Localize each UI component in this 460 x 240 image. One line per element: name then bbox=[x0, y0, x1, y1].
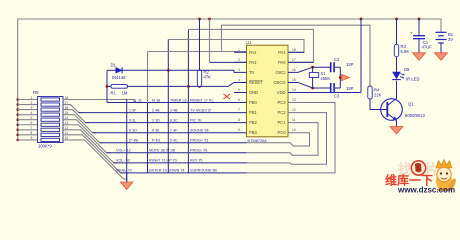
wire corridor col3 to pin18 PA1 bbox=[168, 40, 304, 53]
svg-text:8: 8 bbox=[238, 118, 240, 122]
svg-text:2: 2 bbox=[238, 58, 240, 62]
svg-text:5.6K: 5.6K bbox=[401, 49, 410, 54]
svg-text:PC3: PC3 bbox=[278, 100, 287, 105]
resistor R1 bbox=[107, 82, 247, 95]
svg-text:1M: 1M bbox=[122, 91, 128, 96]
wire pin3 T0 to D1 node bbox=[168, 69, 234, 71]
svg-text:6: 6 bbox=[31, 121, 33, 125]
svg-text:3: 3 bbox=[238, 68, 240, 72]
svg-text:2 4B: 2 4B bbox=[152, 108, 160, 112]
svg-text:C3: C3 bbox=[334, 94, 340, 99]
svg-text:18: 18 bbox=[292, 48, 296, 52]
svg-text:47UF: 47UF bbox=[422, 45, 433, 50]
ground under Q1 bbox=[390, 127, 403, 135]
capacitor C2 15P bbox=[331, 57, 354, 72]
svg-text:3 3D: 3 3D bbox=[152, 118, 160, 122]
capacitor C3 15P bbox=[331, 83, 354, 99]
resistor R4 22K bbox=[368, 86, 388, 110]
svg-text:VDD: VDD bbox=[277, 90, 286, 95]
resistor R2 47K bbox=[197, 19, 211, 86]
svg-text:+: + bbox=[410, 31, 413, 36]
svg-text:3V: 3V bbox=[448, 37, 453, 42]
svg-text:VOL- 53: VOL- 53 bbox=[116, 159, 130, 163]
svg-text:16: 16 bbox=[292, 68, 296, 72]
no-ERC red cross at pin5 bbox=[224, 94, 231, 99]
node junction dots on VDD rail bbox=[198, 18, 420, 21]
crystal X1 455K bbox=[309, 67, 330, 88]
svg-text:8050/9013: 8050/9013 bbox=[405, 113, 425, 118]
wire fan from resistor pack to key matrix rows bbox=[63, 100, 141, 180]
svg-text:TV-VIDEO 6*: TV-VIDEO 6* bbox=[190, 108, 212, 112]
svg-text:12: 12 bbox=[292, 108, 296, 112]
node A dot bbox=[311, 66, 314, 69]
svg-text:1: 1 bbox=[238, 48, 240, 52]
svg-text:PA2: PA2 bbox=[249, 50, 257, 55]
svg-text:U1: U1 bbox=[246, 40, 252, 45]
svg-text:PC1: PC1 bbox=[278, 120, 287, 125]
wire pin16 OSCI diagonal to node A bbox=[288, 67, 330, 72]
ground under table bbox=[120, 173, 133, 190]
svg-text:R1: R1 bbox=[111, 91, 117, 96]
node dot R1 left bbox=[106, 85, 109, 88]
svg-text:4: 4 bbox=[238, 78, 240, 82]
svg-text:GND: GND bbox=[249, 90, 258, 95]
watermark mascot bbox=[436, 160, 457, 192]
svg-text:8 3C: 8 3C bbox=[170, 118, 178, 122]
diode D1 IN4148 bbox=[107, 63, 168, 81]
wire VDD top rail bbox=[18, 19, 441, 140]
svg-text:8: 8 bbox=[31, 131, 33, 135]
LED D8 IR bbox=[392, 67, 419, 82]
svg-text:6: 6 bbox=[238, 98, 240, 102]
IC pin names bbox=[249, 50, 286, 135]
matrix column 2 bbox=[147, 52, 149, 104]
svg-text:PC2: PC2 bbox=[278, 110, 287, 115]
svg-text:SOUND SF: SOUND SF bbox=[190, 128, 210, 132]
op IC U1 NTM8720A bbox=[246, 40, 288, 143]
svg-text:www.dzsc.com: www.dzsc.com bbox=[397, 186, 455, 195]
svg-text:13: 13 bbox=[292, 98, 296, 102]
key matrix table grid lines bbox=[107, 102, 136, 104]
svg-text:PROG+ T3: PROG+ T3 bbox=[190, 139, 208, 143]
svg-text:PIC TE: PIC TE bbox=[190, 118, 202, 122]
svg-text:15P: 15P bbox=[346, 86, 354, 91]
svg-text:NTM8720A: NTM8720A bbox=[248, 139, 268, 143]
svg-text:14: 14 bbox=[292, 88, 296, 92]
matrix left bus bbox=[106, 70, 108, 102]
wire pin2 PA3 row bbox=[210, 61, 247, 63]
svg-text:9: 9 bbox=[31, 136, 33, 140]
battery B1 3V bbox=[435, 32, 454, 60]
wire caps common bbox=[339, 67, 341, 88]
svg-text:PA3: PA3 bbox=[249, 60, 257, 65]
svg-text:IR LED: IR LED bbox=[406, 77, 420, 82]
svg-text:IN4148: IN4148 bbox=[112, 75, 126, 80]
node dot R2 bottom bbox=[198, 85, 201, 88]
key matrix table text bbox=[116, 98, 217, 172]
svg-text:SURROUND 5B: SURROUND 5B bbox=[190, 169, 217, 173]
svg-text:7 4F: 7 4F bbox=[170, 128, 178, 132]
matrix column 1 bbox=[126, 99, 128, 182]
svg-text:PB1: PB1 bbox=[249, 110, 257, 115]
svg-text:7: 7 bbox=[238, 108, 240, 112]
svg-text:OSCO: OSCO bbox=[273, 80, 285, 85]
svg-text:9: 9 bbox=[238, 128, 240, 132]
svg-text:MUTE 3B 5* 3B: MUTE 3B 5* 3B bbox=[149, 149, 176, 153]
node dot caps common bbox=[339, 76, 342, 79]
svg-text:TIMER LE: TIMER LE bbox=[170, 98, 188, 102]
svg-text:Q1: Q1 bbox=[408, 102, 414, 107]
svg-text:PB3: PB3 bbox=[249, 130, 257, 135]
transistor Q1 8050/9013 bbox=[381, 99, 426, 121]
resistor R3 5.6K bbox=[394, 19, 409, 72]
svg-text:455K: 455K bbox=[320, 76, 330, 81]
svg-text:PA0: PA0 bbox=[278, 60, 286, 65]
svg-text:10: 10 bbox=[292, 128, 296, 132]
svg-text:4 3K: 4 3K bbox=[152, 128, 160, 132]
svg-text:4: 4 bbox=[31, 111, 33, 115]
svg-text:RIGHT 71 UP 70: RIGHT 71 UP 70 bbox=[149, 159, 177, 163]
svg-text:3 4B: 3 4B bbox=[170, 108, 178, 112]
svg-text:3: 3 bbox=[31, 106, 33, 110]
svg-text:2: 2 bbox=[31, 101, 33, 105]
wire corridor col4 to pin17 PA0 bbox=[188, 29, 313, 62]
wire VDD riser to pin2 row bbox=[209, 19, 211, 62]
svg-text:PA1: PA1 bbox=[278, 50, 286, 55]
svg-text:RESET: RESET bbox=[249, 80, 263, 85]
IC right pin stubs bbox=[288, 52, 361, 92]
svg-text:1: 1 bbox=[31, 96, 33, 100]
svg-text:1 3F: 1 3F bbox=[129, 108, 137, 112]
svg-text:MENU 71: MENU 71 bbox=[116, 169, 132, 173]
svg-text:VOL+ 12: VOL+ 12 bbox=[116, 149, 131, 153]
svg-text:9 3D: 9 3D bbox=[129, 128, 137, 132]
key matrix table rows 1-4 (to IC pins 6-9) bbox=[79, 103, 247, 133]
svg-text:KEY 75: KEY 75 bbox=[190, 159, 202, 163]
node dot R1-col4 bbox=[187, 85, 190, 88]
svg-text:R5: R5 bbox=[33, 90, 39, 95]
svg-text:17: 17 bbox=[292, 58, 296, 62]
svg-text:PROG- T8: PROG- T8 bbox=[190, 149, 207, 153]
node B dot bbox=[311, 87, 314, 90]
wire VDD riser to pin14 bbox=[360, 19, 362, 93]
svg-text:22K: 22K bbox=[374, 93, 382, 98]
svg-text:M 38: M 38 bbox=[152, 98, 160, 102]
node dot D1-col3 bbox=[167, 69, 170, 72]
svg-text:PC0: PC0 bbox=[278, 130, 287, 135]
node junction dots on left VDD bus bbox=[16, 98, 19, 141]
svg-text:ENTER 15 DOWN 74: ENTER 15 DOWN 74 bbox=[149, 169, 184, 173]
IC left pin stubs 1-5 bbox=[234, 52, 247, 92]
svg-text:D1: D1 bbox=[111, 63, 117, 68]
svg-text:7: 7 bbox=[31, 126, 33, 130]
svg-text:5: 5 bbox=[31, 116, 33, 120]
svg-text:T0: T0 bbox=[249, 70, 255, 75]
watermark logo circle bbox=[411, 161, 425, 175]
svg-text:0 4C: 0 4C bbox=[170, 139, 178, 143]
svg-text:C2: C2 bbox=[334, 57, 340, 62]
wire pin15 OSCO diagonal to node B bbox=[288, 82, 330, 88]
svg-text:15: 15 bbox=[292, 78, 296, 82]
matrix column 4 bbox=[187, 29, 189, 173]
IC pin numbers bbox=[238, 48, 296, 132]
svg-text:PB0: PB0 bbox=[249, 100, 257, 105]
svg-text:P 4D: P 4D bbox=[152, 139, 160, 143]
wire riser pin1 to LED drive corridor bbox=[222, 25, 371, 86]
capacitor C4 47UF electrolytic bbox=[410, 19, 432, 60]
svg-text:PB2: PB2 bbox=[249, 120, 257, 125]
svg-text:D8: D8 bbox=[404, 67, 410, 72]
svg-text:100K*9: 100K*9 bbox=[38, 144, 52, 149]
wire pin1 PA2 row to column 2 bbox=[148, 51, 247, 53]
matrix column 3 bbox=[167, 40, 169, 173]
resistor pack R5 bbox=[31, 90, 69, 149]
svg-text:5: 5 bbox=[238, 88, 240, 92]
svg-text:OSCI: OSCI bbox=[275, 70, 285, 75]
ground arrow right at oscillator bbox=[342, 74, 350, 80]
svg-text:47K: 47K bbox=[204, 75, 212, 80]
svg-text:X1: X1 bbox=[320, 71, 326, 76]
svg-text:11: 11 bbox=[292, 118, 296, 122]
svg-text:2* 4B: 2* 4B bbox=[129, 139, 139, 143]
svg-text:15P: 15P bbox=[346, 62, 354, 67]
svg-text:RMSET 17 #1: RMSET 17 #1 bbox=[190, 98, 213, 102]
wire resistor pack left stubs bbox=[18, 100, 38, 140]
wire Q1 collector up / emitter down bbox=[396, 81, 398, 99]
key matrix table rows 5-8 wrapping to IC pins 10-13 bbox=[100, 143, 247, 173]
svg-text:11 31: 11 31 bbox=[133, 98, 142, 102]
svg-text:9 3L: 9 3L bbox=[129, 118, 136, 122]
